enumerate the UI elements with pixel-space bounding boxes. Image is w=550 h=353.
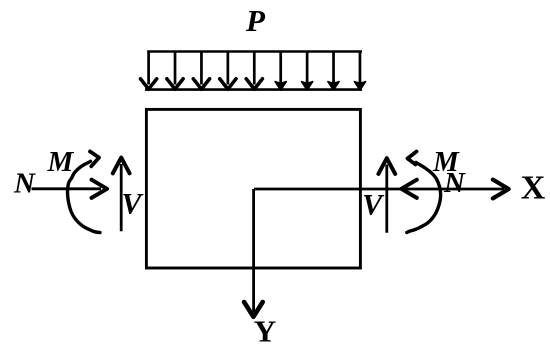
load arrow 9 (354, 52, 365, 91)
load arrow 1 (141, 52, 157, 90)
svg-text:V: V (122, 188, 145, 221)
load arrow 8 (328, 52, 339, 91)
y-axis line from origin (252, 189, 255, 312)
left shear force V arrow (113, 158, 130, 232)
distributed load P: top line (147, 50, 362, 53)
label M (left) (47, 146, 75, 178)
label V (right) (362, 188, 385, 221)
svg-text:X: X (521, 169, 546, 206)
label Y (254, 314, 276, 349)
beam element rectangle (146, 109, 360, 268)
load arrow 5 (246, 52, 262, 90)
label V (left) (122, 188, 145, 221)
x-axis arrowhead (493, 180, 509, 199)
svg-text:M: M (432, 146, 460, 178)
left moment M curved arrow (67, 151, 100, 232)
load arrow 7 (302, 52, 313, 91)
svg-text:V: V (362, 188, 385, 221)
label P (245, 3, 266, 38)
right moment M curved arrow (407, 152, 441, 233)
label M (right) (432, 146, 460, 178)
x-axis line from origin (254, 188, 504, 191)
svg-text:Y: Y (254, 314, 276, 349)
label N (left) (13, 168, 36, 200)
right shear force V arrow (378, 158, 395, 233)
svg-text:M: M (47, 146, 75, 178)
label X (521, 169, 546, 206)
left axial force N arrow (32, 180, 108, 198)
right axial force N arrowhead (pointing left along x-axis) (401, 180, 417, 198)
svg-text:P: P (245, 3, 266, 38)
distributed load P: baseline (145, 88, 362, 91)
load arrow 3 (193, 52, 209, 90)
load arrow 6 (275, 52, 286, 91)
load arrow 4 (220, 52, 236, 90)
svg-text:N: N (13, 168, 36, 200)
label N (right) (443, 167, 466, 199)
y-axis arrowhead (244, 302, 263, 317)
load arrow 2 (167, 52, 183, 90)
